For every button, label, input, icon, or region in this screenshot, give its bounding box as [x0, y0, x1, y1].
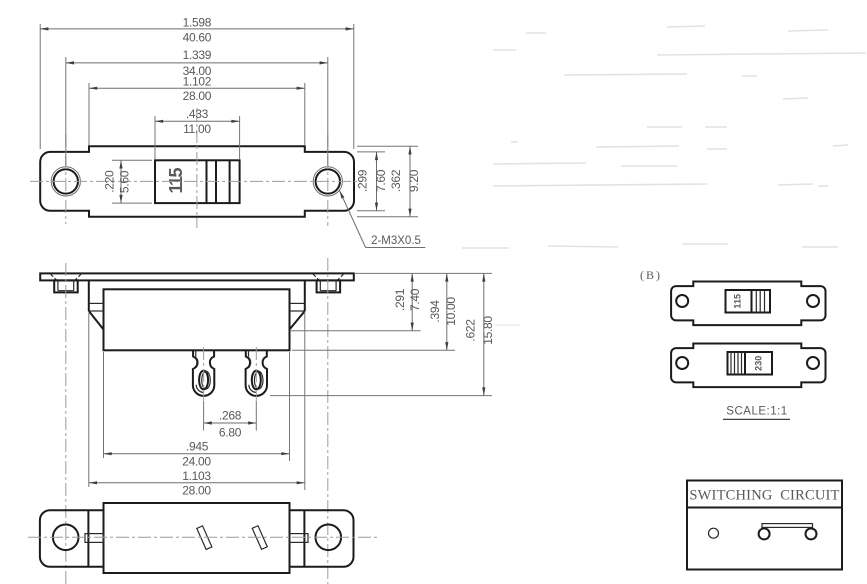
bottom view body [104, 503, 290, 573]
small switch 230 outline [671, 344, 825, 388]
svg-text:15.80: 15.80 [481, 316, 495, 345]
svg-text:.394: .394 [428, 300, 442, 323]
svg-text:(B): (B) [640, 268, 662, 282]
top view vertical centerline middle [196, 108, 198, 228]
top view horizontal centerline [30, 180, 362, 182]
front view centerline left hole [65, 263, 67, 584]
scale label [723, 406, 790, 420]
svg-text:.945: .945 [186, 439, 209, 453]
circuit switch symbol [759, 524, 817, 540]
bottom view left hole [53, 525, 79, 551]
front view mounting plate [40, 273, 354, 280]
faint scan smudges [462, 26, 866, 325]
svg-text:11.00: 11.00 [183, 122, 211, 136]
terminal centerline 1 [203, 347, 205, 403]
bottom view right hole [316, 525, 342, 551]
bottom view horizontal centerline [28, 536, 377, 538]
svg-text:28.00: 28.00 [183, 89, 212, 103]
small switch 115 outline [671, 282, 825, 326]
leader 2-M3X0.5 [340, 191, 426, 248]
bottom view right link bar [290, 534, 309, 543]
dim 1.598/40.60 [40, 16, 354, 150]
front view right boss [317, 280, 341, 292]
svg-text:1.339: 1.339 [183, 48, 212, 62]
svg-text:230: 230 [754, 356, 764, 371]
svg-text:7.40: 7.40 [408, 288, 422, 311]
bottom view slot 2 [252, 526, 267, 550]
dim .945/24.00 [104, 352, 290, 468]
circuit common terminal [709, 528, 719, 538]
front view left countersink dashed [50, 274, 56, 280]
title box [687, 481, 842, 570]
front view left flange [89, 280, 104, 329]
front view right flange [290, 280, 305, 329]
dim 1.339/34.00 [66, 48, 328, 166]
svg-text:.291: .291 [393, 288, 407, 311]
svg-text:1.102: 1.102 [183, 75, 212, 89]
bottom view slot 1 [197, 526, 212, 550]
front view left boss [54, 280, 77, 292]
svg-text:6.80: 6.80 [219, 426, 242, 440]
bottom view left tab [40, 510, 104, 567]
dim .299/7.60 vertical right [356, 152, 388, 211]
knob [155, 160, 240, 203]
terminal 2 [246, 350, 267, 396]
top view left hole [54, 169, 78, 193]
dim .220/5.60 vertical [103, 160, 153, 203]
dim .433/11.00 [155, 107, 240, 159]
dim .622/15.80 [270, 273, 495, 395]
dim .394/10.00 [292, 273, 458, 350]
svg-text:.268: .268 [219, 409, 242, 423]
dim .268/6.80 [204, 402, 257, 440]
svg-text:1.103: 1.103 [182, 469, 211, 483]
bottom view left link bar [85, 534, 104, 543]
dim 1.103/28.00 [89, 313, 305, 498]
front view right countersink dashed [313, 274, 319, 280]
svg-text:9.20: 9.20 [407, 169, 421, 192]
svg-text:40.60: 40.60 [183, 31, 212, 45]
svg-text:SWITCHING CIRCUIT: SWITCHING CIRCUIT [689, 488, 839, 504]
svg-text:SCALE:1:1: SCALE:1:1 [726, 406, 787, 418]
svg-text:28.00: 28.00 [182, 484, 211, 498]
svg-text:.622: .622 [463, 319, 477, 342]
svg-text:.220: .220 [103, 170, 117, 193]
svg-text:.362: .362 [389, 169, 403, 192]
top view vertical centerline right hole [327, 134, 329, 226]
top view right hole [316, 169, 340, 193]
svg-text:24.00: 24.00 [182, 454, 211, 468]
front view body [104, 289, 290, 350]
dim .362/9.20 vertical right [357, 146, 421, 217]
terminal centerline 2 [255, 347, 257, 403]
front view centerline right hole [327, 258, 329, 584]
svg-text:2-M3X0.5: 2-M3X0.5 [371, 235, 421, 247]
top view vertical centerline left hole [65, 134, 67, 224]
svg-text:7.60: 7.60 [374, 169, 388, 192]
svg-text:115: 115 [166, 167, 186, 193]
bottom view right tab [290, 510, 354, 567]
svg-text:10.00: 10.00 [444, 297, 458, 326]
svg-text:115: 115 [733, 294, 743, 309]
dim 1.102/28.00 [89, 75, 305, 146]
svg-text:1.598: 1.598 [183, 16, 212, 30]
terminal 1 [193, 350, 214, 396]
svg-text:.433: .433 [186, 107, 209, 121]
dim .291/7.40 [291, 273, 422, 330]
top view outline [40, 146, 354, 217]
svg-text:5.60: 5.60 [118, 170, 132, 193]
svg-text:.299: .299 [356, 169, 370, 192]
